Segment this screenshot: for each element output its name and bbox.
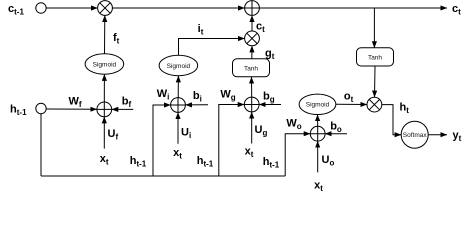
wire adder to c_t output (259, 7, 447, 9)
wire h_t to softmax (382, 105, 401, 135)
svg-text:Sigmoid: Sigmoid (93, 61, 117, 68)
svg-text:ft: ft (113, 32, 120, 46)
svg-text:xt: xt (100, 153, 109, 167)
svg-text:it: it (198, 23, 204, 37)
adder O2 (output gate sum) (310, 126, 325, 141)
sigmoid O1 (299, 94, 336, 114)
adder G1 (g gate sum) (244, 97, 259, 112)
svg-text:ht-1: ht-1 (10, 104, 27, 118)
svg-text:Wi: Wi (157, 88, 170, 102)
svg-text:yt: yt (453, 130, 462, 144)
svg-text:ht-1: ht-1 (197, 155, 214, 169)
wire b_i (185, 104, 208, 106)
multiply X3 (hidden state product) (367, 97, 382, 112)
softmax S2 (401, 121, 428, 148)
svg-text:Tanh: Tanh (244, 65, 258, 72)
adder S1 (cell state sum) (245, 1, 260, 16)
wire U_g (x_t input) (251, 112, 253, 144)
wire b_f (112, 108, 134, 110)
svg-text:ct: ct (256, 21, 265, 35)
wire b_g (259, 104, 281, 106)
svg-text:Ui: Ui (181, 127, 191, 141)
wire i adder to sigmoid I1 (177, 76, 179, 98)
sigmoid F1 (85, 54, 124, 74)
wire f adder to sigmoid F1 (103, 74, 105, 102)
svg-text:xt: xt (314, 180, 323, 194)
svg-text:Softmax: Softmax (403, 132, 428, 139)
sigmoid I1 (159, 55, 198, 75)
wire U_i (x_t input) (177, 112, 179, 143)
node c_t-1 input terminal (36, 3, 46, 13)
svg-text:gt: gt (265, 48, 275, 62)
svg-text:Ug: Ug (255, 124, 268, 138)
multiply X2 (input gate product) (245, 31, 260, 46)
multiply X1 (forget gate product) (98, 1, 113, 16)
wire multiply X2 to adder S1 (251, 15, 253, 31)
svg-text:Tanh: Tanh (368, 54, 382, 61)
wire U_o (x_t input) (317, 141, 319, 172)
svg-text:Sigmoid: Sigmoid (167, 63, 191, 70)
wire tanh T1 to multiply X2 (251, 46, 253, 59)
svg-text:Wf: Wf (68, 96, 81, 110)
svg-text:ct-1: ct-1 (8, 3, 24, 17)
wire g adder to tanh T1 (251, 77, 253, 97)
wire h_t-1 bottom bus (41, 175, 285, 177)
wire tanh T2 to multiply X3 (374, 66, 377, 97)
svg-text:bi: bi (193, 90, 202, 104)
wire o adder to sigmoid O1 (317, 115, 319, 127)
svg-text:ot: ot (344, 90, 354, 104)
svg-text:Uf: Uf (108, 128, 119, 142)
adder F2 (forget gate sum) (97, 102, 112, 117)
svg-text:Uo: Uo (322, 154, 335, 168)
wire W_o (h_t-1 branch) (285, 134, 310, 176)
svg-text:bo: bo (330, 121, 342, 135)
svg-text:ht-1: ht-1 (130, 155, 147, 169)
wire W_f (46, 108, 97, 110)
svg-text:Sigmoid: Sigmoid (306, 102, 330, 109)
svg-text:bg: bg (263, 91, 275, 105)
wire c_t-1 to multiply (46, 7, 97, 9)
wire softmax to y_t output (428, 134, 447, 136)
wire U_f (x_t input) (103, 117, 105, 149)
wire W_g (h_t-1 branch) (219, 105, 245, 177)
svg-text:Wo: Wo (286, 118, 301, 132)
wire h_t-1 down from terminal (40, 114, 42, 176)
wire W_i (h_t-1 branch) (153, 105, 171, 176)
adder I2 (input gate sum) (171, 98, 186, 113)
tanh T2 box (357, 48, 394, 66)
svg-text:bf: bf (122, 96, 132, 110)
svg-text:ht-1: ht-1 (263, 156, 280, 170)
svg-text:xt: xt (245, 146, 254, 160)
svg-text:ct: ct (452, 3, 461, 17)
wire f sigmoid to multiply X1 (104, 15, 106, 53)
svg-text:xt: xt (173, 147, 182, 161)
tanh T1 box (233, 59, 270, 77)
wire i_t sigmoid to multiply X2 (179, 39, 245, 57)
node h_t-1 input terminal (36, 103, 46, 113)
svg-text:Wg: Wg (220, 89, 235, 103)
svg-text:ht: ht (400, 102, 410, 116)
wire multiply X1 to adder (112, 7, 244, 9)
wire o_t sigmoid to multiply X3 (336, 103, 367, 105)
wire cell state branch to tanh T2 (373, 8, 375, 48)
wire b_o (325, 133, 347, 135)
